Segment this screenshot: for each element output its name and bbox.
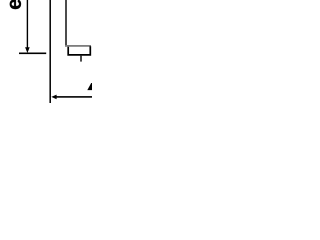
dimension extension line L1 (left, with down arrow): [27, 0, 28, 48]
lead centerline stub: [80, 56, 81, 62]
seating plane line (gray): [65, 45, 91, 47]
lead foot outline (open top box): [68, 46, 90, 55]
arrowhead down on L1: [25, 47, 30, 53]
arrowhead left: [51, 95, 56, 100]
dimension label e (rotated 90° CCW reading top-down, clipped at top): [10, 0, 21, 9]
clipped leader arrowhead (bottom right): [87, 83, 92, 90]
lead edge line L3: [65, 0, 66, 47]
pitch reference line H1: [19, 53, 46, 55]
dimension line (bottom, arrow pointing left): [56, 96, 93, 98]
extension line L2 (center vertical): [49, 0, 51, 103]
